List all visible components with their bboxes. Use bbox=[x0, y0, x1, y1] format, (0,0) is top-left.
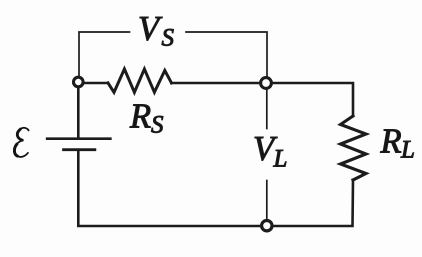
svg-text:S: S bbox=[151, 112, 164, 139]
svg-text:L: L bbox=[400, 137, 415, 164]
label ℰ (script E, hand-drawn) bbox=[14, 128, 28, 157]
wire: bottom node to bottom-left corner, up to battery bottom plate bbox=[78, 151, 260, 226]
wire: VS bracket left vertical + top horizontal left part bbox=[79, 32, 130, 77]
node: left terminal (open circle) bbox=[74, 77, 84, 87]
label RL bbox=[380, 123, 415, 164]
wire: battery top plate up to left node bbox=[77, 88, 80, 138]
wire: RS right lead to center node bbox=[172, 82, 261, 85]
resistor RS (zigzag) bbox=[108, 69, 172, 92]
node: bottom junction (open circle) bbox=[262, 221, 272, 231]
wire: RL bottom lead down to bottom-right corner and along bottom to bottom node bbox=[274, 180, 354, 226]
svg-text:R: R bbox=[380, 123, 402, 161]
wire: center node to top of RL bbox=[273, 83, 353, 116]
node: center junction (open circle) bbox=[261, 78, 272, 89]
label VS bbox=[138, 10, 175, 52]
wire: left node to RS left lead bbox=[84, 82, 108, 85]
label RS bbox=[129, 98, 164, 139]
wire: VS bracket top horizontal right part + right vertical down to center node bbox=[186, 32, 267, 77]
svg-text:R: R bbox=[129, 98, 151, 136]
svg-text:S: S bbox=[162, 25, 175, 52]
label VL bbox=[253, 130, 287, 173]
resistor RL (vertical zigzag) bbox=[341, 116, 367, 180]
battery ℰ : long plate (positive) bbox=[47, 137, 110, 140]
battery ℰ : short plate (negative) bbox=[64, 148, 95, 151]
wire: VL lead from center node down to VL label bbox=[266, 90, 268, 129]
svg-text:L: L bbox=[273, 146, 288, 173]
wire: VL label down to bottom node bbox=[266, 181, 268, 220]
